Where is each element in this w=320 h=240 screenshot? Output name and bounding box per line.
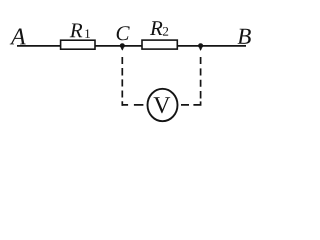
- node C junction dot: [120, 43, 125, 48]
- wire dashed: node C down to voltmeter left terminal: [122, 57, 144, 106]
- label R1 value: [70, 23, 83, 37]
- label R2 value: [150, 21, 163, 35]
- resistor R1: [61, 40, 95, 49]
- voltmeter V letter symbol: [153, 97, 170, 113]
- node B terminal label: [238, 29, 251, 44]
- resistor R2: [142, 40, 177, 49]
- wire A-B main horizontal conductor: [17, 45, 246, 47]
- voltmeter V1 body: [148, 89, 178, 121]
- wire dashed: node D down to voltmeter right terminal: [181, 57, 201, 105]
- node C label: [117, 26, 130, 40]
- node D junction dot (right side of R2): [198, 43, 203, 48]
- node A terminal label: [10, 29, 26, 45]
